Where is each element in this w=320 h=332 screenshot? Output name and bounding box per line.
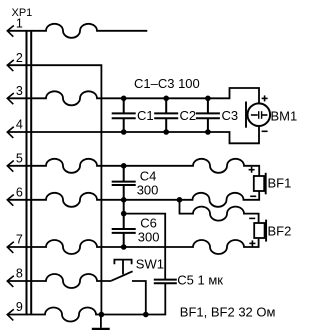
svg-text:BM1: BM1 [271, 109, 298, 124]
pin 5 arrow [7, 161, 14, 172]
wire pin 3 to BM1 plus [8, 88, 260, 105]
wire pin 4 to BM1 minus [8, 126, 260, 143]
capacitor C4 [112, 166, 136, 200]
pin 3 arrow [7, 93, 14, 104]
BF2 plus sign [249, 240, 255, 246]
svg-text:BF1: BF1 [268, 175, 292, 190]
capacitor C2 [154, 98, 178, 132]
earphone BF2 [254, 220, 266, 242]
junction dots [99, 96, 211, 318]
pin 6 arrow [7, 195, 14, 206]
BF2 minus sign [249, 217, 255, 219]
wire pin 6 to BF1 minus [8, 191, 260, 207]
svg-text:SW1: SW1 [136, 256, 164, 271]
wire branch pin 6 to BF2 minus [180, 200, 259, 223]
svg-text:8: 8 [16, 267, 23, 281]
BF1 minus sign [250, 195, 256, 197]
svg-text:C4: C4 [140, 169, 157, 184]
svg-text:300: 300 [138, 229, 160, 244]
pin 1 arrow [7, 26, 14, 37]
svg-text:C1: C1 [137, 108, 154, 123]
svg-text:C2: C2 [180, 108, 197, 123]
switch SW1 lever [111, 271, 132, 280]
svg-text:300: 300 [137, 183, 159, 198]
microphone BM1 [246, 102, 270, 128]
wire pin 5 to BF1 plus [8, 159, 260, 176]
capacitor C5 [154, 280, 177, 284]
ground [100, 315, 102, 328]
capacitor C1 [112, 98, 136, 132]
svg-text:C6: C6 [140, 215, 157, 230]
svg-text:C5 1 мк: C5 1 мк [177, 272, 223, 287]
capacitor C3 [196, 98, 220, 132]
wire pin 8 to SW1 [8, 274, 112, 288]
capacitor C6 [112, 200, 136, 247]
switch SW1 actuator stem [122, 260, 124, 274]
BF1 plus sign [249, 167, 255, 173]
pin 4 arrow [7, 127, 14, 138]
pin 7 arrow [7, 242, 14, 253]
connector XP1 rail [26, 31, 28, 315]
svg-text:BF2: BF2 [268, 224, 292, 239]
svg-text:C3: C3 [222, 108, 239, 123]
svg-text:C1–C3 100: C1–C3 100 [134, 76, 200, 91]
wire C6 top to C5 top [124, 214, 166, 279]
svg-text:4: 4 [16, 118, 23, 132]
wire pin 1 [8, 24, 148, 38]
svg-text:2: 2 [16, 51, 23, 65]
BM1 minus sign [262, 130, 268, 132]
svg-text:7: 7 [16, 233, 23, 247]
wire pin 9 [8, 284, 166, 322]
svg-text:9: 9 [16, 300, 23, 314]
pin 2 arrow [7, 60, 14, 71]
pin 9 arrow [7, 309, 14, 320]
svg-text:BF1, BF2 32 Ом: BF1, BF2 32 Ом [180, 305, 276, 320]
svg-text:5: 5 [16, 152, 23, 166]
earphone BF1 [254, 173, 266, 195]
wire pin 7 to BF2 plus [8, 239, 259, 254]
pin 8 arrow [7, 276, 14, 287]
svg-text:6: 6 [16, 186, 23, 200]
svg-text:3: 3 [16, 84, 23, 98]
BM1 plus sign [262, 95, 268, 101]
wire SW1 to pin 9 [132, 281, 146, 315]
svg-text:1: 1 [16, 17, 23, 31]
pin number labels [16, 17, 23, 315]
wire pin 2 to ground bus [8, 65, 102, 314]
switch SW1 actuator cap [114, 260, 131, 265]
